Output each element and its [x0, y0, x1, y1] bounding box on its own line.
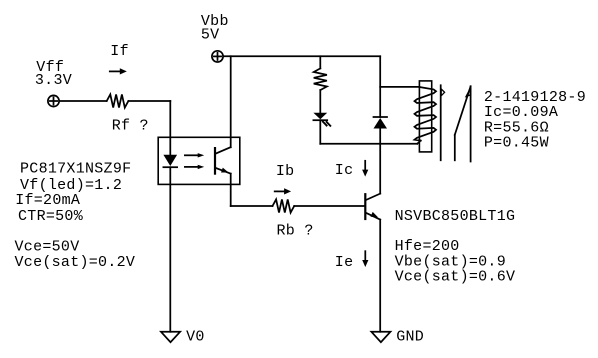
svg-text:5V: 5V — [201, 26, 220, 43]
svg-text:P=0.45W: P=0.45W — [484, 135, 549, 152]
svg-text:V0: V0 — [186, 328, 205, 345]
svg-text:NSVBC850BLT1G: NSVBC850BLT1G — [395, 208, 516, 225]
svg-text:Ic: Ic — [335, 162, 354, 179]
svg-text:GND: GND — [396, 328, 424, 345]
svg-text:Vce(sat)=0.6V: Vce(sat)=0.6V — [395, 268, 516, 285]
svg-text:Ib: Ib — [276, 163, 295, 180]
svg-text:If=20mA: If=20mA — [15, 192, 80, 209]
svg-text:Vce(sat)=0.2V: Vce(sat)=0.2V — [15, 254, 136, 271]
svg-text:If: If — [110, 43, 129, 60]
svg-text:PC817X1NSZ9F: PC817X1NSZ9F — [20, 161, 131, 178]
svg-text:CTR=50%: CTR=50% — [18, 208, 84, 225]
svg-text:Rf ?: Rf ? — [112, 117, 149, 134]
svg-text:3.3V: 3.3V — [35, 72, 72, 89]
svg-text:Rb ?: Rb ? — [277, 223, 314, 240]
svg-text:Ie: Ie — [335, 254, 354, 271]
